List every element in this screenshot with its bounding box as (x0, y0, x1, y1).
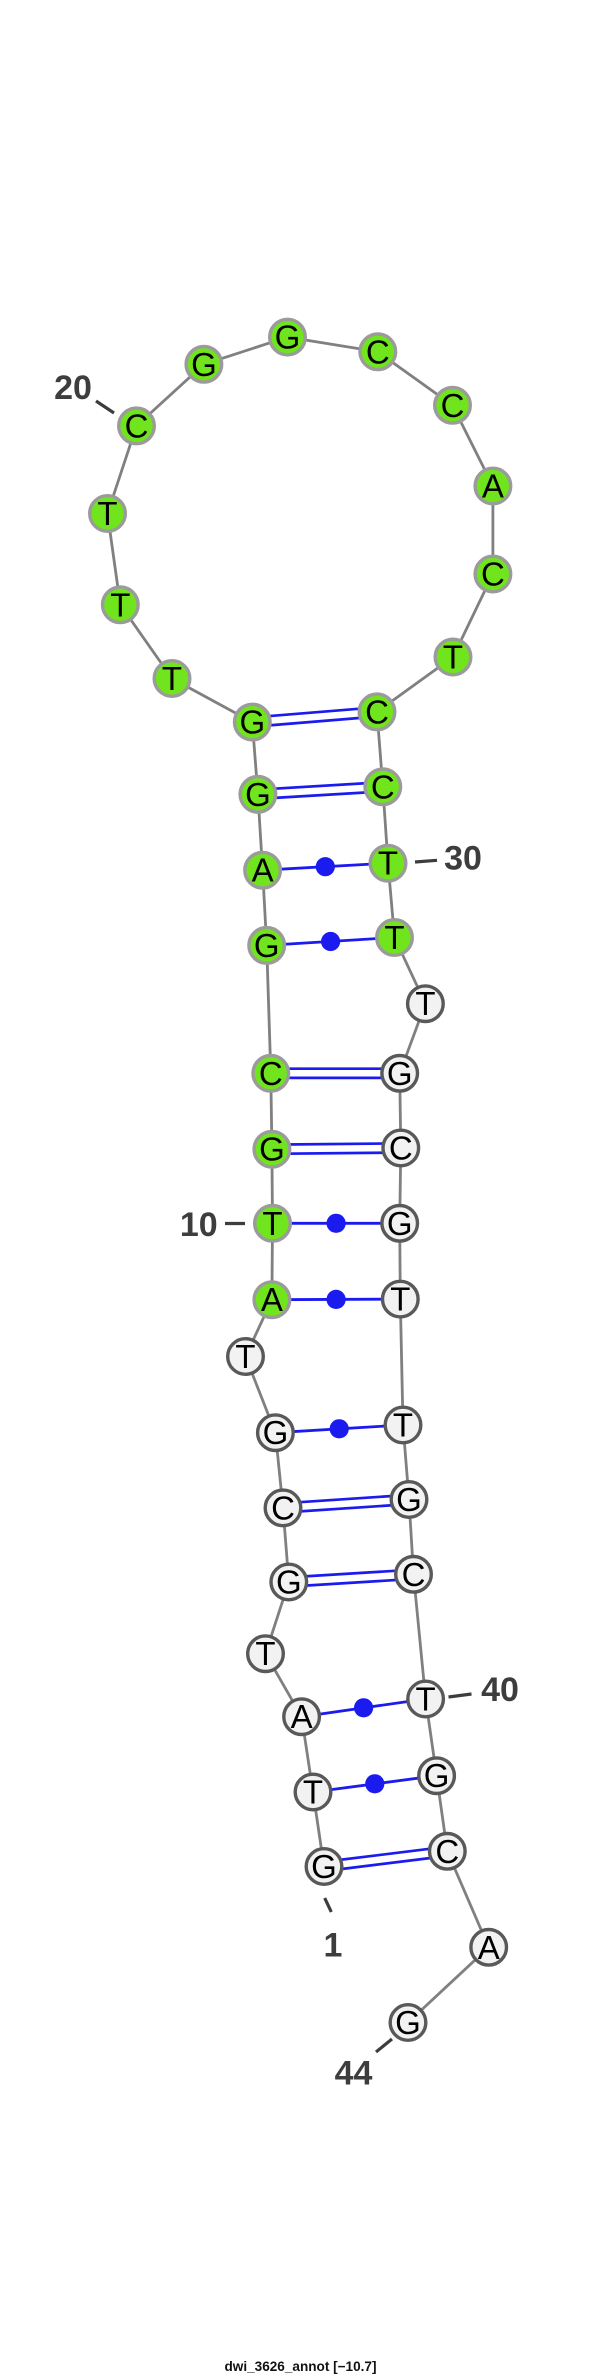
svg-text:30: 30 (444, 840, 482, 878)
bond A3=T40 line with dot (302, 1698, 426, 1717)
wire backbone 22-23 (288, 337, 378, 352)
svg-text:G: G (275, 319, 301, 356)
nucleotide 43 A (471, 1929, 507, 1966)
wire backbone 43-44 (408, 1947, 489, 2022)
svg-text:G: G (191, 346, 217, 383)
svg-text:C: C (389, 1130, 413, 1167)
nucleotide 3 A (284, 1698, 320, 1735)
nucleotide 28 C (359, 693, 395, 730)
tick for label 1 (325, 1898, 332, 1912)
tick for label 30 (415, 860, 437, 862)
svg-text:A: A (478, 1929, 500, 1966)
wire backbone 25-26 (491, 486, 494, 574)
bond G16=C28 double line (252, 707, 378, 726)
wire backbone 41-42 (437, 1776, 448, 1852)
nucleotide 40 T (408, 1681, 444, 1718)
wire backbone 40-41 (426, 1699, 437, 1776)
nucleotide 21 G (186, 346, 222, 383)
bond C12=G33 double line (271, 1069, 400, 1078)
svg-text:G: G (395, 2004, 421, 2041)
svg-text:G: G (424, 1757, 450, 1794)
nucleotide 20 C (119, 407, 155, 444)
wire backbone 27-28 (377, 657, 453, 712)
nucleotide 4 T (248, 1635, 284, 1672)
svg-text:1: 1 (324, 1927, 343, 1965)
svg-text:20: 20 (54, 369, 92, 407)
svg-text:T: T (384, 919, 404, 956)
wire backbone 15-16 (252, 722, 258, 794)
bond T10=G35 line with dot (273, 1214, 400, 1233)
nucleotide 31 T (377, 919, 413, 956)
wire backbone 9-10 (270, 1223, 273, 1299)
svg-text:T: T (303, 1774, 323, 1811)
svg-text:T: T (262, 1205, 282, 1242)
nucleotide 7 G (258, 1414, 294, 1451)
nucleotide 44 G (390, 2004, 426, 2041)
svg-text:T: T (378, 845, 398, 882)
svg-text:C: C (371, 768, 395, 805)
nucleotide 22 G (270, 319, 306, 356)
wire backbone 2-3 (302, 1717, 313, 1792)
tick for label 10 (225, 1222, 245, 1225)
nucleotide 39 C (396, 1556, 432, 1593)
wire backbone 26-27 (453, 574, 493, 657)
nucleotide 8 T (228, 1338, 264, 1375)
nucleotide 26 C (475, 556, 511, 593)
wire backbone 5-6 (283, 1508, 289, 1582)
svg-text:C: C (441, 387, 465, 424)
wire backbone 38-39 (409, 1500, 414, 1575)
bond A14=T30 line with dot (263, 857, 388, 876)
wire backbone 32-33 (400, 1004, 426, 1074)
wire backbone 35-36 (398, 1223, 401, 1299)
svg-text:G: G (254, 927, 280, 964)
svg-text:dwi_3626_annot [−10.7]: dwi_3626_annot [−10.7] (225, 2359, 377, 2374)
nucleotide 24 C (435, 387, 471, 424)
nucleotide 37 T (385, 1407, 421, 1444)
nucleotide 6 C (265, 1489, 301, 1526)
svg-text:A: A (482, 468, 504, 505)
wire backbone 14-15 (258, 794, 263, 870)
wire backbone 31-32 (395, 938, 426, 1004)
wire backbone 39-40 (414, 1574, 426, 1699)
wire backbone 6-7 (275, 1433, 283, 1508)
nucleotide 14 A (245, 852, 281, 889)
nucleotide 41 G (419, 1757, 455, 1794)
nucleotide 25 A (475, 468, 511, 505)
svg-text:A: A (291, 1698, 313, 1735)
svg-text:T: T (110, 586, 130, 623)
wire backbone 19-20 (108, 426, 137, 514)
svg-text:G: G (396, 1481, 422, 1518)
wire backbone 17-18 (120, 605, 172, 679)
nucleotide 2 T (295, 1774, 331, 1811)
svg-text:G: G (239, 704, 265, 741)
nucleotide 15 G (240, 776, 276, 813)
svg-text:T: T (97, 495, 117, 532)
nucleotide 38 G (391, 1481, 427, 1518)
svg-text:C: C (365, 693, 389, 730)
bond A9=T36 line with dot (272, 1290, 400, 1309)
svg-text:T: T (390, 1281, 410, 1318)
nucleotide 33 G (382, 1055, 418, 1092)
nucleotide 19 T (90, 495, 126, 532)
nucleotide 35 G (382, 1205, 418, 1242)
wire backbone 24-25 (453, 405, 493, 486)
wire backbone 13-14 (263, 870, 267, 945)
wire backbone 29-30 (383, 787, 388, 863)
wire backbone 3-4 (266, 1654, 302, 1717)
bond G13=T31 line with dot (267, 932, 395, 951)
nucleotide 17 T (154, 660, 190, 697)
nucleotide 42 C (430, 1833, 466, 1870)
svg-text:G: G (259, 1131, 285, 1168)
tick for label 40 (449, 1694, 472, 1697)
svg-text:44: 44 (335, 2055, 373, 2093)
svg-text:C: C (366, 333, 390, 370)
svg-text:C: C (481, 556, 505, 593)
bond T2=G41 line with dot (313, 1774, 437, 1793)
bond G5=C39 double line (289, 1570, 414, 1587)
svg-text:T: T (416, 1681, 436, 1718)
nucleotide 10 T (255, 1205, 291, 1242)
wire backbone 20-21 (137, 364, 204, 426)
nucleotide 1 G (306, 1848, 342, 1885)
svg-text:C: C (435, 1833, 459, 1870)
wire backbone 28-29 (377, 712, 383, 787)
nucleotide 29 C (365, 768, 401, 805)
bond G11=C34 double line (272, 1143, 401, 1153)
svg-text:T: T (415, 985, 435, 1022)
wire backbone 23-24 (378, 352, 453, 406)
nucleotide 9 A (254, 1281, 290, 1318)
wire backbone 16-17 (172, 679, 252, 723)
svg-text:G: G (387, 1205, 413, 1242)
svg-text:T: T (393, 1407, 413, 1444)
wire backbone 33-34 (400, 1073, 401, 1148)
tick for label 44 (376, 2039, 392, 2052)
nucleotide 11 G (254, 1131, 290, 1168)
bond G15=C29 double line (258, 782, 384, 799)
nucleotide 32 T (408, 985, 444, 1022)
wire backbone 7-8 (246, 1357, 276, 1433)
wire backbone 4-5 (266, 1582, 289, 1654)
wire backbone 1-2 (313, 1792, 324, 1867)
nucleotide 12 C (253, 1055, 289, 1092)
nucleotide 13 G (249, 927, 285, 964)
nucleotide 18 T (103, 586, 139, 623)
svg-text:G: G (387, 1055, 413, 1092)
svg-text:C: C (271, 1489, 295, 1526)
bond G1=C42 double line (323, 1847, 448, 1871)
wire backbone 8-9 (246, 1300, 272, 1357)
svg-text:C: C (402, 1556, 426, 1593)
bond C6=G38 double line (283, 1495, 410, 1513)
nucleotide 16 G (235, 704, 271, 741)
svg-text:A: A (261, 1281, 283, 1318)
wire backbone 30-31 (388, 863, 395, 937)
nucleotide 5 G (271, 1564, 307, 1601)
wire backbone 37-38 (403, 1425, 409, 1500)
wire backbone 36-37 (400, 1299, 403, 1425)
nucleotide 36 T (383, 1281, 419, 1318)
wire backbone 10-11 (270, 1149, 273, 1223)
wire backbone 12-13 (267, 945, 271, 1073)
wire backbone 11-12 (271, 1073, 272, 1149)
nucleotide 34 C (383, 1130, 419, 1167)
svg-text:T: T (162, 660, 182, 697)
nucleotide 23 C (360, 333, 396, 370)
wire backbone 18-19 (108, 514, 121, 605)
svg-text:10: 10 (180, 1206, 218, 1244)
svg-text:C: C (259, 1055, 283, 1092)
svg-text:C: C (125, 407, 149, 444)
tick for label 20 (96, 401, 114, 413)
nucleotide 30 T (370, 845, 406, 882)
svg-text:40: 40 (481, 1671, 519, 1709)
bond G7=T37 line with dot (275, 1419, 403, 1438)
wire backbone 21-22 (204, 337, 288, 364)
svg-text:A: A (252, 852, 274, 889)
wire backbone 34-35 (400, 1148, 401, 1223)
svg-text:T: T (235, 1338, 255, 1375)
svg-text:G: G (311, 1848, 337, 1885)
wire backbone 42-43 (447, 1851, 488, 1947)
svg-text:T: T (443, 639, 463, 676)
svg-text:T: T (255, 1635, 275, 1672)
svg-text:G: G (245, 776, 271, 813)
svg-text:G: G (276, 1564, 302, 1601)
svg-text:G: G (263, 1414, 289, 1451)
nucleotide 27 T (435, 639, 471, 676)
